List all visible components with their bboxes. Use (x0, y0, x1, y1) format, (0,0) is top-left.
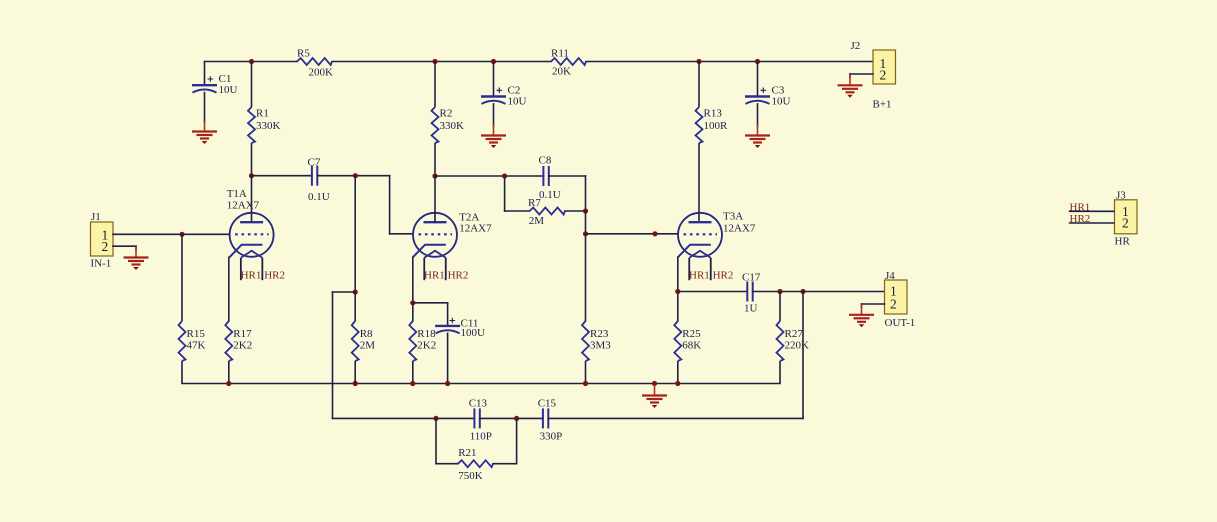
svg-text:R17: R17 (233, 328, 252, 340)
triode T3A (12AX7) (678, 210, 756, 257)
wire J1 pin 2 drop (135, 246, 137, 249)
svg-text:R21: R21 (458, 447, 476, 459)
capacitor C8 (539, 155, 561, 201)
capacitor C11 (435, 317, 485, 339)
svg-text:HR2: HR2 (264, 270, 285, 282)
junction R2 top (432, 59, 437, 64)
svg-text:330K: 330K (440, 120, 465, 132)
wire to R7 (505, 210, 530, 212)
svg-text:J1: J1 (91, 211, 101, 223)
wire C1 top lead (204, 62, 206, 86)
wire J1 pin 2 stub (113, 245, 136, 247)
triode T1A (12AX7) (227, 188, 274, 258)
svg-text:C17: C17 (742, 271, 761, 283)
svg-text:20K: 20K (552, 66, 571, 78)
ground at J4 (849, 304, 874, 328)
wire feedback left drop (332, 292, 334, 418)
capacitor C2 (481, 84, 527, 107)
wire C3 bottom lead (757, 104, 759, 127)
wire C7 to corner (317, 175, 389, 177)
wire B+ rail middle segment (332, 61, 551, 63)
wire T1A plate to C7 (252, 175, 312, 177)
svg-text:330P: 330P (540, 431, 563, 443)
junction ground tap (652, 381, 657, 386)
wire to T3A grid (586, 233, 679, 235)
junction C8-R7 left node (502, 173, 507, 178)
ground at C3 (745, 125, 770, 149)
svg-text:R5: R5 (297, 47, 310, 59)
wire to T2A grid (390, 233, 413, 235)
wire C8 right (549, 175, 586, 177)
junction C2 top (491, 59, 496, 64)
connector J3 (HR) (1115, 189, 1138, 247)
svg-text:C3: C3 (772, 84, 785, 96)
junction C7 output node (353, 173, 358, 178)
svg-text:C13: C13 (469, 397, 488, 409)
pin heater 1 of T3A (688, 258, 690, 280)
wire J2 ground drop (849, 74, 851, 78)
resistor R21 (458, 447, 493, 482)
svg-text:C2: C2 (508, 84, 521, 96)
svg-text:2K2: 2K2 (233, 339, 252, 351)
svg-text:750K: 750K (458, 470, 483, 482)
junction T1A plate node (249, 173, 254, 178)
wire J2 pin 2 to ground (850, 73, 873, 75)
wire J4 ground drop (861, 304, 863, 308)
capacitor C13 (469, 397, 492, 442)
wire C11 bottom lead (447, 333, 449, 383)
resistor R18 (409, 321, 436, 384)
wire C2 top lead (493, 62, 495, 97)
junction T3A grid node (583, 231, 588, 236)
resistor R13 (696, 62, 729, 223)
wire R7 right (565, 210, 586, 212)
junction R8 bottom (353, 381, 358, 386)
svg-text:OUT-1: OUT-1 (885, 317, 916, 329)
capacitor C1 (192, 73, 238, 96)
wire B+ rail left segment (205, 61, 298, 63)
junction T2A plate node (432, 173, 437, 178)
pin heater 2 of T3A (710, 258, 712, 280)
connector J4 (OUT-1) (885, 270, 916, 329)
wire T1A plate lead (251, 176, 253, 223)
svg-text:C8: C8 (539, 155, 552, 167)
svg-text:T1A: T1A (227, 188, 247, 200)
wire T2A plate to C8 (435, 175, 543, 177)
svg-text:HR1: HR1 (241, 270, 262, 282)
resistor R1 (248, 62, 281, 176)
svg-text:2K2: 2K2 (417, 339, 436, 351)
wire C11 top lead (447, 303, 449, 326)
svg-text:3M3: 3M3 (590, 339, 611, 351)
wire B+ rail right segment to J2 pin 1 (586, 61, 873, 63)
junction R21 left node (433, 416, 438, 421)
junction R21 right node (514, 416, 519, 421)
junction C11 bottom (445, 381, 450, 386)
svg-text:R2: R2 (440, 107, 453, 119)
resistor R2 (432, 62, 465, 177)
svg-text:2M: 2M (529, 215, 545, 227)
wire R21 right (493, 463, 517, 465)
wire T2A cathode down (412, 257, 414, 321)
svg-text:110P: 110P (470, 431, 492, 443)
svg-text:47K: 47K (187, 339, 206, 351)
capacitor C3 (745, 84, 791, 107)
wire feedback to C13 (333, 417, 475, 419)
svg-text:200K: 200K (309, 66, 334, 78)
pin heater 1 of T2A (423, 258, 425, 280)
svg-text:12AX7: 12AX7 (723, 222, 756, 234)
ground at J2 (838, 74, 863, 98)
svg-text:T3A: T3A (723, 210, 743, 222)
svg-text:100U: 100U (461, 327, 486, 339)
resistor R5 (297, 47, 333, 78)
capacitor C7 (308, 157, 330, 203)
wire T2A plate lead (434, 176, 436, 222)
svg-text:2: 2 (1122, 215, 1129, 230)
svg-text:330K: 330K (256, 120, 281, 132)
svg-text:R18: R18 (417, 328, 436, 340)
svg-text:12AX7: 12AX7 (459, 222, 492, 234)
wire C17 to J4 pin 1 (753, 291, 885, 293)
svg-text:0.1U: 0.1U (308, 191, 330, 203)
wire C2 bottom lead (493, 104, 495, 127)
svg-text:C15: C15 (538, 397, 557, 409)
svg-text:12AX7: 12AX7 (227, 199, 260, 211)
svg-text:R23: R23 (590, 328, 609, 340)
junction R13 top (696, 59, 701, 64)
wire T1A cathode to R17 (228, 257, 230, 321)
svg-text:10U: 10U (772, 96, 791, 108)
wire R21 right riser (516, 418, 518, 463)
svg-text:J4: J4 (885, 270, 895, 282)
junction T2A cathode node (410, 300, 415, 305)
wire cathode to C17 (678, 291, 748, 293)
wire C3 top lead (757, 62, 759, 97)
junction input node (179, 232, 184, 237)
ground at C2 (481, 125, 506, 149)
wire cathode node to C11 (413, 302, 448, 304)
junction R27 top (777, 289, 782, 294)
junction C3 top (755, 59, 760, 64)
svg-text:220K: 220K (785, 339, 810, 351)
wire ground rail (182, 383, 780, 385)
svg-text:R13: R13 (704, 107, 723, 119)
svg-text:R7: R7 (528, 197, 541, 209)
svg-text:IN-1: IN-1 (91, 258, 112, 270)
svg-text:J3: J3 (1116, 189, 1126, 201)
svg-text:100R: 100R (704, 120, 729, 132)
wire J4 pin 2 stub (862, 303, 885, 305)
wire corner down to T2A grid row (389, 176, 391, 234)
wire C13 to C15 (480, 417, 543, 419)
wire C1 bottom lead (204, 93, 206, 123)
wire down to R23 (585, 211, 587, 321)
svg-text:HR2: HR2 (713, 270, 734, 282)
svg-text:J2: J2 (851, 40, 861, 52)
svg-text:R11: R11 (551, 47, 569, 59)
svg-text:2M: 2M (360, 339, 376, 351)
wire to R21 (436, 463, 458, 465)
resistor R8 (352, 292, 376, 384)
junction R23 bottom (583, 381, 588, 386)
wire feedback riser (802, 292, 804, 419)
svg-text:10U: 10U (219, 84, 238, 96)
wire feedback to corner (333, 291, 356, 293)
junction R1 top (249, 59, 254, 64)
pin heater 2 of T1A (261, 258, 263, 280)
svg-text:68K: 68K (682, 339, 701, 351)
resistor R17 (225, 321, 252, 384)
pin heater 1 of T1A (240, 258, 242, 280)
wire C8 right drop (585, 176, 587, 211)
svg-text:HR2: HR2 (448, 270, 469, 282)
svg-text:R25: R25 (682, 328, 701, 340)
ground at rail (642, 385, 667, 409)
triode T2A (12AX7) (413, 211, 492, 257)
wire J1 pin 1 to input node (113, 233, 182, 235)
wire R21 left drop (435, 418, 437, 463)
connector J2 (B+1) (851, 40, 896, 111)
svg-text:HR: HR (1115, 235, 1131, 247)
svg-text:HR1: HR1 (689, 270, 710, 282)
svg-text:R15: R15 (187, 328, 206, 340)
junction R8 top / feedback node (353, 289, 358, 294)
svg-text:1U: 1U (744, 303, 758, 315)
resistor R11 (551, 47, 586, 77)
svg-text:C7: C7 (308, 157, 321, 169)
ground at C1 (192, 121, 217, 145)
pin heater 2 of T2A (445, 258, 447, 280)
wire grid leak drop to R8 (354, 176, 356, 292)
svg-text:HR1: HR1 (424, 270, 445, 282)
junction on T3A grid wire (652, 231, 657, 236)
resistor R23 (582, 321, 611, 384)
junction R18 bottom (410, 381, 415, 386)
junction C8-R7 right node (583, 208, 588, 213)
capacitor C15 (538, 397, 563, 442)
svg-text:R27: R27 (785, 328, 804, 340)
svg-text:2: 2 (890, 296, 897, 311)
svg-text:B+1: B+1 (873, 99, 892, 111)
connector J1 (IN-1) (91, 211, 114, 270)
svg-text:C1: C1 (219, 73, 232, 85)
wire C15 to output riser (548, 417, 803, 419)
svg-text:10U: 10U (508, 96, 527, 108)
svg-text:2: 2 (102, 239, 109, 254)
ground at J1 (124, 247, 149, 271)
capacitor C17 (742, 271, 761, 314)
junction R25 bottom (675, 381, 680, 386)
resistor R27 (777, 292, 810, 384)
resistor R7 (528, 197, 565, 227)
resistor R25 (674, 321, 701, 384)
junction feedback tap (800, 289, 805, 294)
wire T3A cathode down (677, 257, 679, 321)
resistor R15 (179, 234, 206, 383)
svg-text:R1: R1 (256, 107, 269, 119)
svg-text:R8: R8 (360, 328, 373, 340)
wire HR1 to J3 pin 1 (1069, 210, 1115, 212)
wire R7 left drop (504, 176, 506, 211)
junction output node at cathode (675, 289, 680, 294)
junction R17 bottom (226, 381, 231, 386)
svg-text:0.1U: 0.1U (539, 189, 561, 201)
svg-text:2: 2 (880, 68, 887, 83)
wire HR2 to J3 pin 2 (1069, 222, 1115, 224)
wire input node to T1A grid (182, 233, 230, 235)
